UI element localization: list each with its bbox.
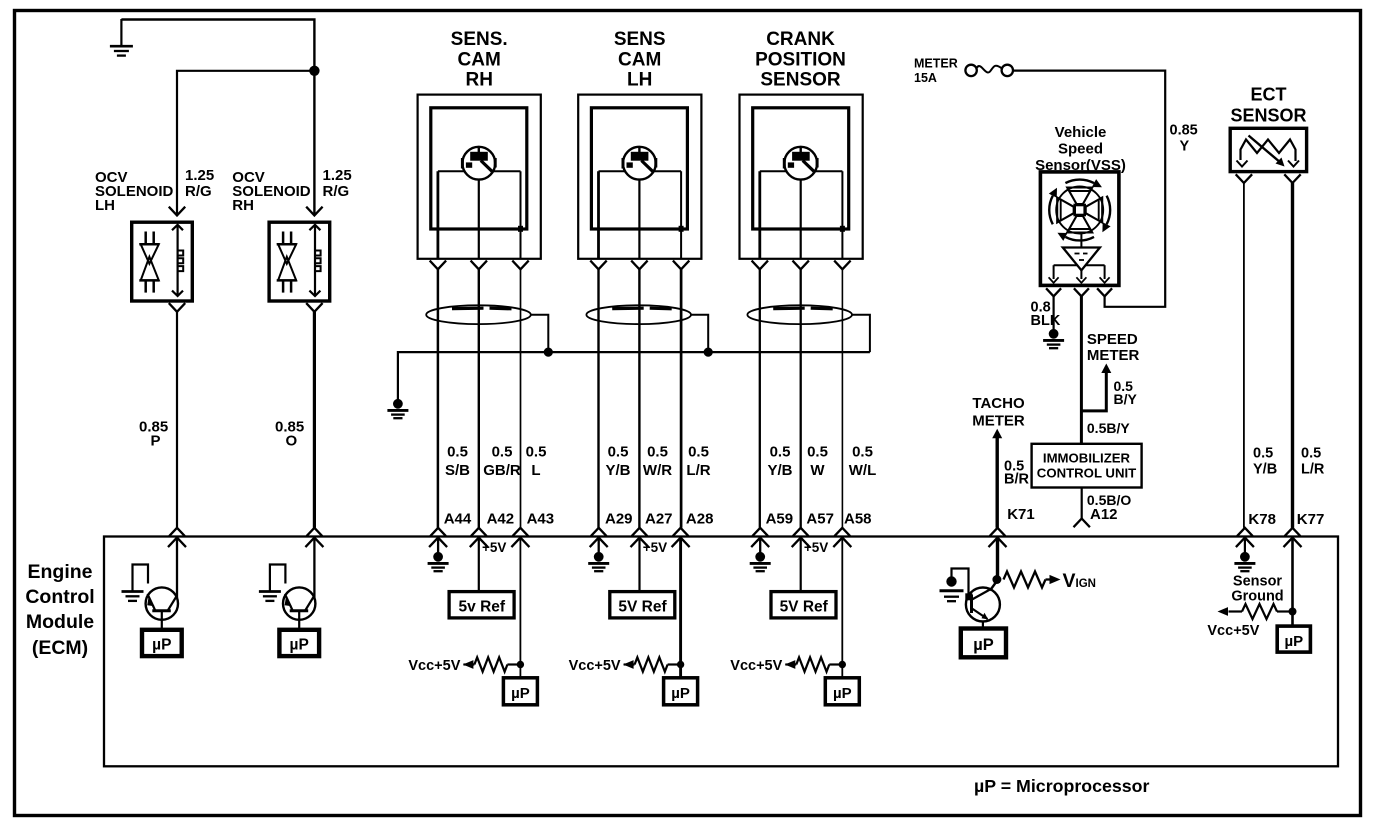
- wires VSS outputs: [1053, 265, 1055, 279]
- svg-text:W/R: W/R: [643, 462, 672, 479]
- connector pin: [307, 528, 323, 536]
- pulse input symbol: [952, 569, 969, 594]
- arrow to speed meter: [1101, 364, 1111, 374]
- junction dot: [704, 348, 713, 357]
- wire: [176, 312, 178, 528]
- connector pin: [591, 528, 607, 536]
- svg-text:R/G: R/G: [323, 183, 350, 200]
- wire: [841, 269, 843, 528]
- svg-text:A12: A12: [1090, 506, 1118, 523]
- svg-text:METER: METER: [1087, 347, 1140, 364]
- sensor element box: [599, 170, 682, 172]
- svg-text:15A: 15A: [914, 71, 937, 85]
- svg-text:5V Ref: 5V Ref: [780, 599, 829, 616]
- wire: [1081, 488, 1083, 519]
- connector chevrons: [430, 261, 446, 270]
- 5v Ref box: [610, 592, 675, 618]
- svg-text:CONTROL UNIT: CONTROL UNIT: [1037, 465, 1136, 480]
- wire: [841, 538, 843, 678]
- svg-text:Vcc+5V: Vcc+5V: [1207, 623, 1259, 639]
- sensor outer box: [418, 95, 541, 259]
- svg-text:0.85: 0.85: [1170, 123, 1198, 139]
- resistor Vcc: [796, 657, 829, 671]
- wire: [800, 180, 802, 259]
- svg-text:R/G: R/G: [185, 183, 212, 200]
- sensor ground symbol: [1240, 552, 1250, 562]
- valve symbol: [277, 243, 297, 246]
- svg-text:A58: A58: [844, 511, 872, 528]
- microprocessor uP box: [825, 678, 859, 705]
- svg-text:METER: METER: [914, 57, 958, 71]
- ECM box: [104, 537, 1338, 767]
- svg-text:1.25: 1.25: [185, 167, 214, 184]
- microprocessor uP box: [279, 630, 319, 656]
- wire: [121, 20, 314, 216]
- svg-text:5v Ref: 5v Ref: [459, 599, 506, 616]
- connector pin: [471, 528, 487, 536]
- svg-text:A59: A59: [766, 511, 794, 528]
- wire shield bus: [398, 352, 870, 399]
- valve symbol: [139, 243, 159, 246]
- resistor Vcc: [635, 657, 668, 671]
- svg-text:B/R: B/R: [1004, 471, 1030, 487]
- rotation arrows: [1065, 180, 1094, 184]
- sensor inner box: [753, 108, 849, 229]
- svg-text:µP: µP: [671, 685, 690, 702]
- svg-text:CRANK: CRANK: [766, 29, 835, 50]
- svg-text:µP: µP: [152, 636, 171, 653]
- OCV solenoid box LH: [132, 222, 193, 301]
- wire speed signal: [1080, 296, 1083, 444]
- svg-text:POSITION: POSITION: [755, 50, 846, 71]
- resistor Vcc: [474, 657, 507, 671]
- svg-text:A28: A28: [686, 511, 714, 528]
- svg-text:µP: µP: [290, 636, 309, 653]
- svg-text:IGN: IGN: [1076, 578, 1096, 590]
- svg-text:RH: RH: [465, 70, 492, 91]
- junction dot: [309, 66, 319, 76]
- transistor Q tacho: [990, 581, 997, 591]
- wire: [298, 611, 300, 630]
- connector pin: [169, 528, 185, 536]
- svg-text:Engine: Engine: [27, 561, 92, 583]
- svg-text:A43: A43: [527, 511, 555, 528]
- microprocessor uP box: [142, 630, 182, 656]
- junction dot: [517, 661, 524, 668]
- wire: [996, 437, 999, 528]
- svg-text:0.5: 0.5: [647, 444, 668, 461]
- svg-text:0.5: 0.5: [1301, 446, 1321, 462]
- microprocessor uP box: [664, 678, 698, 705]
- arrow VIGN: [1050, 575, 1061, 584]
- VSS amplifier triangle: [1063, 248, 1100, 271]
- wire: [1243, 183, 1245, 528]
- wire: [598, 538, 600, 553]
- wire: [478, 538, 480, 592]
- svg-text:P: P: [151, 433, 161, 450]
- connector pin: [430, 528, 446, 536]
- svg-text:TACHO: TACHO: [972, 395, 1025, 412]
- wire: [759, 538, 761, 553]
- svg-text:Y/B: Y/B: [1253, 462, 1277, 478]
- svg-text:A57: A57: [806, 511, 834, 528]
- wire: [1052, 296, 1054, 329]
- connector pin: [673, 528, 689, 536]
- svg-text:K77: K77: [1297, 511, 1325, 528]
- svg-text:S/B: S/B: [445, 462, 470, 479]
- wire: [520, 269, 522, 528]
- svg-text:A27: A27: [645, 511, 673, 528]
- sensor outer box: [578, 95, 701, 259]
- junction dot: [544, 348, 553, 357]
- svg-text:Y: Y: [1180, 139, 1190, 155]
- ground: [122, 590, 144, 593]
- junction dot: [992, 575, 1001, 584]
- svg-text:SENSOR: SENSOR: [760, 70, 841, 91]
- transistor Q: [146, 587, 178, 619]
- VSS internal bus: [1054, 264, 1105, 266]
- signal ground: [755, 552, 765, 562]
- svg-text:B/Y: B/Y: [1114, 391, 1138, 407]
- thermistor: [1241, 140, 1296, 162]
- wire: [800, 538, 802, 592]
- shield ellipse: [586, 305, 691, 324]
- svg-text:+5V: +5V: [804, 540, 828, 555]
- connector chevrons: [752, 261, 768, 270]
- wire: [437, 538, 439, 553]
- wire: [1291, 183, 1294, 528]
- sensor outer box: [740, 95, 863, 259]
- connector pin: [1285, 528, 1301, 536]
- shield ellipse: [426, 305, 531, 324]
- svg-text:+5V: +5V: [482, 540, 506, 555]
- wire: [313, 538, 315, 598]
- svg-text:RH: RH: [232, 197, 254, 214]
- svg-text:µP: µP: [511, 685, 530, 702]
- connector chevrons: [1046, 288, 1061, 296]
- svg-text:L: L: [531, 462, 540, 479]
- wire: [759, 269, 761, 528]
- ground shield: [393, 399, 403, 409]
- svg-text:L/R: L/R: [1301, 462, 1325, 478]
- pulse input symbol: [133, 565, 149, 592]
- connector A12: [1074, 519, 1090, 528]
- transistor Q: [283, 587, 315, 619]
- 5v Ref box: [771, 592, 836, 618]
- svg-text:LH: LH: [627, 70, 652, 91]
- wire shield drain 3: [852, 315, 870, 352]
- connector pin: [632, 528, 648, 536]
- svg-text:CAM: CAM: [458, 50, 501, 71]
- connector chevrons: [1236, 174, 1252, 183]
- wire: [176, 538, 178, 598]
- svg-text:0.5: 0.5: [1253, 446, 1273, 462]
- ground: [946, 576, 956, 586]
- svg-text:(ECM): (ECM): [32, 637, 88, 659]
- svg-text:1.25: 1.25: [323, 167, 352, 184]
- resistor sensor ground: [1242, 604, 1277, 619]
- svg-text:0.5: 0.5: [807, 444, 828, 461]
- wire: [1013, 71, 1165, 307]
- svg-text:SPEED: SPEED: [1087, 331, 1138, 348]
- wire: [1291, 538, 1294, 627]
- wire: [638, 180, 640, 259]
- arrow to tacho meter: [992, 429, 1002, 439]
- wire: [478, 269, 480, 528]
- coil: [177, 225, 179, 295]
- sensor inner box: [431, 108, 527, 229]
- svg-text:0.5: 0.5: [526, 444, 547, 461]
- svg-text:O: O: [286, 433, 298, 450]
- arrow Vcc+5V: [463, 660, 474, 669]
- microprocessor uP box: [1277, 626, 1310, 652]
- svg-text:Vcc+5V: Vcc+5V: [730, 658, 782, 674]
- coil: [314, 225, 316, 295]
- wire: [996, 538, 999, 580]
- connector chevron: [169, 303, 185, 312]
- wire: [638, 538, 640, 592]
- signal ground: [433, 552, 443, 562]
- connector pin: [513, 528, 529, 536]
- svg-text:BLK: BLK: [1031, 313, 1061, 329]
- svg-text:CAM: CAM: [618, 50, 661, 71]
- connector chevrons: [590, 261, 606, 270]
- connector pin: [990, 528, 1006, 536]
- svg-text:A29: A29: [605, 511, 633, 528]
- immobilizer control unit box: [1032, 444, 1142, 488]
- resistor to VIGN: [1004, 572, 1046, 588]
- fuse METER 15A: [965, 65, 976, 76]
- svg-text:Vcc+5V: Vcc+5V: [408, 658, 460, 674]
- svg-text:0.5: 0.5: [608, 444, 629, 461]
- VSS rotor symbol: [1056, 187, 1103, 234]
- connector chevron: [169, 207, 185, 216]
- svg-text:Control: Control: [25, 586, 94, 608]
- arrow Vcc+5V: [1218, 607, 1229, 616]
- wire shield drain 2: [691, 315, 708, 351]
- svg-text:Vehicle: Vehicle: [1055, 124, 1107, 141]
- svg-text:K78: K78: [1248, 511, 1276, 528]
- svg-text:V: V: [1063, 570, 1076, 592]
- svg-text:SENSOR: SENSOR: [1230, 105, 1306, 125]
- svg-text:METER: METER: [972, 412, 1025, 429]
- svg-text:Speed: Speed: [1058, 140, 1103, 157]
- wire: [478, 180, 480, 259]
- svg-text:0.5: 0.5: [770, 444, 791, 461]
- ground G1: [120, 19, 122, 46]
- wire: [597, 269, 599, 528]
- connector pin: [793, 528, 809, 536]
- svg-text:K71: K71: [1007, 506, 1035, 523]
- svg-text:SENS: SENS: [614, 29, 666, 50]
- sensor inner box: [591, 108, 687, 229]
- svg-text:Ground: Ground: [1231, 589, 1283, 605]
- svg-text:5V Ref: 5V Ref: [618, 599, 667, 616]
- svg-text:A44: A44: [444, 511, 472, 528]
- svg-text:0.5: 0.5: [492, 444, 513, 461]
- svg-text:0.5B/Y: 0.5B/Y: [1087, 420, 1130, 436]
- svg-text:µP: µP: [973, 636, 994, 654]
- wire: [800, 269, 802, 528]
- microprocessor uP box: [503, 678, 537, 705]
- arrow Vcc+5V: [623, 660, 634, 669]
- wire: [638, 269, 640, 528]
- 5v Ref box: [449, 592, 514, 618]
- sensor element box: [438, 170, 521, 172]
- svg-text:0.5: 0.5: [688, 444, 709, 461]
- wire: [519, 538, 521, 678]
- shield ellipse: [747, 305, 852, 324]
- OCV solenoid box RH: [269, 222, 330, 301]
- svg-text:Y/B: Y/B: [605, 462, 630, 479]
- wire speed meter branch: [1081, 372, 1106, 411]
- wire: [437, 269, 440, 528]
- connector pin: [752, 528, 768, 536]
- svg-text:µP = Microprocessor: µP = Microprocessor: [974, 776, 1150, 796]
- ground: [259, 590, 281, 593]
- svg-text:W/L: W/L: [849, 462, 877, 479]
- arrow Vcc+5V: [785, 660, 796, 669]
- svg-text:GB/R: GB/R: [483, 462, 521, 479]
- sensor element box: [760, 170, 843, 172]
- connector chevron: [306, 207, 322, 216]
- svg-text:LH: LH: [95, 197, 115, 214]
- hall sensor circle: [623, 147, 656, 180]
- wire: [161, 611, 163, 630]
- svg-text:µP: µP: [1284, 633, 1303, 650]
- junction dot: [839, 661, 846, 668]
- vehicle speed sensor VSS box: [1040, 172, 1119, 286]
- connector pin: [1237, 528, 1253, 536]
- svg-text:ECT: ECT: [1251, 85, 1287, 105]
- svg-text:Module: Module: [26, 611, 94, 633]
- wire: [679, 538, 682, 678]
- svg-text:Vcc+5V: Vcc+5V: [569, 658, 621, 674]
- wire shield drain 1: [531, 315, 549, 351]
- svg-text:L/R: L/R: [686, 462, 710, 479]
- ground BLK: [1049, 329, 1059, 339]
- svg-text:A42: A42: [487, 511, 515, 528]
- wire: [680, 269, 683, 528]
- signal ground: [594, 552, 604, 562]
- hall sensor circle: [462, 147, 495, 180]
- ECT sensor box: [1230, 128, 1306, 171]
- svg-text:0.5: 0.5: [447, 444, 468, 461]
- hall sensor circle: [784, 147, 817, 180]
- wire: [1244, 538, 1246, 553]
- svg-text:W: W: [810, 462, 825, 479]
- svg-text:0.5: 0.5: [852, 444, 873, 461]
- connector pin: [835, 528, 851, 536]
- svg-text:Y/B: Y/B: [767, 462, 792, 479]
- svg-text:Sensor: Sensor: [1233, 574, 1283, 590]
- connector chevron: [306, 303, 322, 312]
- junction dot: [1289, 608, 1297, 616]
- svg-text:+5V: +5V: [643, 540, 667, 555]
- wire: [313, 312, 316, 528]
- svg-text:µP: µP: [833, 685, 852, 702]
- svg-text:SENS.: SENS.: [451, 29, 508, 50]
- wire: [177, 71, 313, 215]
- svg-text:IMMOBILIZER: IMMOBILIZER: [1043, 450, 1131, 465]
- junction dot: [677, 661, 684, 668]
- microprocessor uP box: [961, 629, 1006, 658]
- pulse input symbol: [270, 565, 286, 592]
